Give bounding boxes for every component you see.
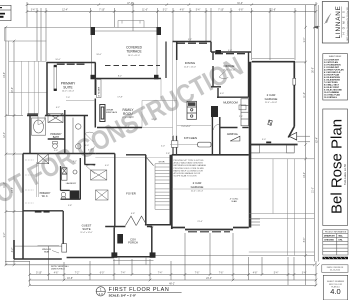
svg-text:7'-6": 7'-6" <box>219 273 224 275</box>
svg-text:4'-0": 4'-0" <box>105 165 109 167</box>
tub <box>32 118 46 135</box>
kitchen <box>170 125 211 144</box>
svg-text:5'-0": 5'-0" <box>161 146 165 148</box>
office door arc <box>219 71 228 79</box>
stair treads upper <box>155 164 170 210</box>
svg-text:26'-8": 26'-8" <box>313 67 315 73</box>
revision box <box>322 265 348 273</box>
guest suite <box>14 240 114 259</box>
svg-text:21'-0": 21'-0" <box>313 187 315 193</box>
powder dark closet <box>70 190 80 199</box>
svg-text:SLAB: SLAB <box>231 200 237 203</box>
dimension texts top <box>31 3 276 12</box>
svg-text:SHEET NUMBER: SHEET NUMBER <box>327 281 345 283</box>
svg-text:4.0: 4.0 <box>99 292 104 296</box>
door arc into wic <box>38 116 45 125</box>
svg-text:31'-0": 31'-0" <box>237 3 243 5</box>
window seat window <box>62 244 67 252</box>
svg-text:5'-2": 5'-2" <box>163 10 168 12</box>
svg-text:SHEET INDEX: SHEET INDEX <box>329 56 342 58</box>
svg-text:11'-4": 11'-4" <box>304 92 306 98</box>
primary suite south wall <box>23 116 88 259</box>
svg-text:11'-6" x 13'-0": 11'-6" x 13'-0" <box>184 66 196 68</box>
garage window east wall <box>293 78 296 85</box>
svg-text:ARRIVAL: ARRIVAL <box>227 132 239 136</box>
terrace beam dashed <box>105 65 160 67</box>
terrace deck edges <box>91 28 161 75</box>
svg-text:GARAGE: GARAGE <box>191 185 204 189</box>
front walk lines bottom <box>5 256 314 265</box>
mud closet boxes <box>239 105 246 110</box>
right dim texts rotated <box>304 38 319 243</box>
terrace posts <box>91 27 162 79</box>
svg-text:47'-0": 47'-0" <box>127 3 133 5</box>
svg-text:8'-6": 8'-6" <box>304 238 306 243</box>
svg-text:05-15-2024: 05-15-2024 <box>330 270 341 272</box>
hall door arcs <box>86 147 95 175</box>
svg-text:AT ALL WALLS AND CEILINGS: AT ALL WALLS AND CEILINGS <box>174 162 204 165</box>
svg-text:11'-6": 11'-6" <box>142 10 148 12</box>
svg-text:4'-2": 4'-2" <box>56 107 60 109</box>
svg-text:BATH: BATH <box>53 136 60 139</box>
svg-text:6'-0": 6'-0" <box>220 93 224 95</box>
wc toilet <box>53 142 58 149</box>
mudroom walls <box>212 88 248 155</box>
svg-text:GARAGE: GARAGE <box>265 97 278 101</box>
svg-text:LINNANE: LINNANE <box>335 5 342 38</box>
svg-text:62'-4": 62'-4" <box>317 137 319 143</box>
svg-text:5'-8": 5'-8" <box>68 205 72 207</box>
svg-text:21'-8": 21'-8" <box>270 10 276 12</box>
svg-text:3'-4": 3'-4" <box>302 273 307 275</box>
svg-text:4'-8": 4'-8" <box>180 10 185 12</box>
svg-text:48'-2": 48'-2" <box>169 283 175 285</box>
svg-text:4.0: 4.0 <box>330 287 340 296</box>
svg-text:16'-4": 16'-4" <box>12 87 14 93</box>
svg-text:4'-8": 4'-8" <box>253 273 258 275</box>
dimension lines right <box>295 5 318 285</box>
svg-text:18'-0": 18'-0" <box>96 54 102 56</box>
svg-text:14'-4": 14'-4" <box>4 72 6 78</box>
svg-text:9'-0"x4'-0": 9'-0"x4'-0" <box>181 126 191 128</box>
title: FIRST FLOOR PLAN <box>96 287 182 298</box>
office walls <box>211 52 249 97</box>
svg-text:DIMS IN FIELD: DIMS IN FIELD <box>51 268 65 270</box>
svg-text:FIREPLACE: FIREPLACE <box>106 111 118 114</box>
west window symbol <box>54 66 57 90</box>
svg-text:BETWEEN HOUSE AND GARAGE: BETWEEN HOUSE AND GARAGE <box>174 164 207 167</box>
svg-text:SCALE: 1/4" = 1'-0": SCALE: 1/4" = 1'-0" <box>109 293 137 297</box>
svg-text:24'-0": 24'-0" <box>206 278 212 280</box>
svg-text:14'-2": 14'-2" <box>304 172 306 178</box>
closets flanking hall <box>91 170 109 200</box>
svg-text:16'-0" x 11'-0": 16'-0" x 11'-0" <box>128 55 140 57</box>
slope arrow at SE corner <box>289 132 297 140</box>
svg-text:12'-4": 12'-4" <box>62 10 68 12</box>
svg-text:7'-10": 7'-10" <box>99 10 105 12</box>
svg-text:DATE / REVISION: DATE / REVISION <box>327 266 344 269</box>
svg-text:PORCH: PORCH <box>128 241 138 245</box>
hall walls <box>85 154 147 228</box>
garage vent hatches bottom <box>188 231 230 233</box>
svg-text:7'-10": 7'-10" <box>218 10 224 12</box>
svg-text:17'-4" x 16'-8": 17'-4" x 16'-8" <box>122 117 135 119</box>
svg-text:11'-4" x 12'-0": 11'-4" x 12'-0" <box>80 232 92 234</box>
svg-text:5'-0": 5'-0" <box>228 50 232 52</box>
svg-text:CHECKED: CHECKED <box>324 239 334 241</box>
dining walls <box>173 42 252 61</box>
vanity two sinks <box>73 118 81 153</box>
stair door + diagonal <box>146 157 154 166</box>
left dim texts rotated <box>4 72 14 252</box>
svg-text:OFFICE: OFFICE <box>224 64 235 68</box>
sheet number box <box>323 275 347 300</box>
svg-text:10'-8" x 11'-0": 10'-8" x 11'-0" <box>223 69 235 71</box>
svg-text:5'-0": 5'-0" <box>54 150 58 152</box>
svg-text:20'-4": 20'-4" <box>124 126 130 128</box>
garage upper walls <box>250 62 298 145</box>
garage rear steps <box>251 219 260 225</box>
svg-text:Twin Lakes Lot 56: Twin Lakes Lot 56 <box>343 164 347 185</box>
bath block east wall <box>79 158 81 200</box>
svg-text:3'-0": 3'-0" <box>262 139 266 141</box>
svg-text:3'-2": 3'-2" <box>73 161 77 163</box>
svg-text:16' SLIDER: 16' SLIDER <box>99 86 101 97</box>
svg-text:12.0 DETAILS: 12.0 DETAILS <box>324 96 338 99</box>
svg-text:14'-0" x 16'-4": 14'-0" x 16'-4" <box>62 91 75 93</box>
hall shower/counter X box <box>38 154 49 164</box>
svg-text:14'-6": 14'-6" <box>12 187 14 193</box>
svg-text:9'-0": 9'-0" <box>304 38 306 43</box>
porch steps <box>113 257 154 265</box>
garage notes text block <box>174 160 207 178</box>
entry double door triangles <box>125 216 146 225</box>
suite west strip lines <box>9 61 47 115</box>
office closet dark <box>216 50 222 54</box>
feather mark <box>325 14 331 23</box>
dimension lines bottom <box>5 233 316 285</box>
svg-text:5'-2": 5'-2" <box>188 39 192 41</box>
suite hall door arc <box>85 132 94 142</box>
svg-text:21'-4" x 20'-8": 21'-4" x 20'-8" <box>265 102 278 104</box>
primary suite walls <box>46 63 95 128</box>
svg-text:21'-4" x 23'-4": 21'-4" x 23'-4" <box>191 190 204 192</box>
stair hall walls <box>145 155 171 225</box>
garage side door frames <box>250 145 294 153</box>
hatched dark bar <box>323 257 349 259</box>
logo box <box>322 2 348 44</box>
svg-text:7'-6": 7'-6" <box>195 273 200 275</box>
dimension lines top <box>27 2 316 61</box>
svg-text:RATED SELF CLOSING DOOR: RATED SELF CLOSING DOOR <box>174 169 204 172</box>
svg-text:17'-8": 17'-8" <box>117 97 123 99</box>
svg-text:4'-4": 4'-4" <box>150 227 154 229</box>
room size sublabels <box>62 55 278 234</box>
svg-text:1407 Jackson Meadows Ph 115 S: 1407 Jackson Meadows Ph 115 Ste 300 <box>346 7 349 41</box>
slider opening box <box>97 80 102 98</box>
legend box top-left <box>0 5 11 20</box>
svg-text:DINING: DINING <box>185 61 196 65</box>
wic south window hatches <box>35 211 50 213</box>
svg-text:SLOPE SLAB TO DOOR: SLOPE SLAB TO DOOR <box>174 175 198 178</box>
svg-text:LAUNDRY: LAUNDRY <box>66 182 77 185</box>
dining west boundary thin <box>173 42 177 136</box>
dim arrow right of top wall <box>313 26 318 29</box>
svg-text:W.I.C.: W.I.C. <box>42 195 49 198</box>
svg-text:21'-4": 21'-4" <box>197 221 203 223</box>
entry: foyer south wall + double door <box>105 226 152 228</box>
svg-text:5'-4": 5'-4" <box>196 10 201 12</box>
svg-text:4'-6": 4'-6" <box>54 273 59 275</box>
note text bottom <box>51 265 70 270</box>
sheet index box <box>323 54 348 100</box>
svg-text:20'-2": 20'-2" <box>151 119 157 121</box>
svg-text:FOYER: FOYER <box>126 192 136 196</box>
island <box>198 142 211 147</box>
svg-text:2'-8": 2'-8" <box>166 153 170 155</box>
svg-text:STOR: STOR <box>158 162 164 164</box>
svg-text:16'-0": 16'-0" <box>55 59 61 61</box>
driveway / walk right <box>249 159 315 256</box>
wall terrace-dining <box>165 42 167 79</box>
svg-text:6'-0": 6'-0" <box>100 273 105 275</box>
svg-text:11'-2": 11'-2" <box>4 182 6 188</box>
svg-text:SUITE: SUITE <box>82 227 90 231</box>
svg-text:MUDROOM: MUDROOM <box>223 100 238 104</box>
svg-text:H O M E S: H O M E S <box>342 10 346 35</box>
family room south wall <box>97 127 142 129</box>
family room north wall (slider) <box>95 78 161 80</box>
bath walls <box>23 110 95 251</box>
chimney outline above terrace <box>118 21 144 28</box>
dimension lines left <box>6 27 62 265</box>
bath east wall <box>84 116 86 156</box>
svg-text:3'-6": 3'-6" <box>88 150 92 152</box>
svg-text:PROJECT INFORMATION: PROJECT INFORMATION <box>325 231 347 234</box>
svg-text:16'-8": 16'-8" <box>67 278 73 280</box>
dining window hatches <box>177 42 207 44</box>
svg-text:5'-4": 5'-4" <box>274 273 279 275</box>
arrival cubbies <box>241 99 249 126</box>
svg-text:4'-2": 4'-2" <box>12 248 14 253</box>
bel rose plan box <box>323 109 348 226</box>
shower <box>48 114 63 123</box>
laundry <box>62 168 77 181</box>
svg-text:7'-4": 7'-4" <box>158 273 163 275</box>
svg-text:KITCHEN: KITCHEN <box>184 136 197 140</box>
svg-text:7'-2": 7'-2" <box>75 273 80 275</box>
garage lower <box>172 62 250 230</box>
svg-text:12'-0": 12'-0" <box>4 132 6 138</box>
svg-text:DRAWN BY: DRAWN BY <box>324 234 336 237</box>
powder toilet <box>61 192 65 199</box>
svg-text:2'-6": 2'-6" <box>239 116 243 118</box>
svg-text:7'-0": 7'-0" <box>66 97 70 99</box>
svg-text:TERRACE: TERRACE <box>126 49 141 53</box>
misc small dims inside plan <box>54 39 266 229</box>
pantry shelves dark <box>211 106 218 117</box>
project table <box>323 230 348 255</box>
svg-text:ROOM: ROOM <box>123 112 133 116</box>
svg-text:SUITE: SUITE <box>63 85 72 89</box>
svg-text:5'-10": 5'-10" <box>36 273 42 275</box>
porch walls <box>112 227 156 257</box>
svg-text:6'-8": 6'-8" <box>239 10 244 12</box>
svg-text:7'-4": 7'-4" <box>121 273 126 275</box>
family room interior lines <box>66 79 177 128</box>
svg-text:AT HOUSE GARAGE DOOR: AT HOUSE GARAGE DOOR <box>174 172 201 175</box>
pantry door arc <box>213 124 219 130</box>
svg-text:1: 1 <box>100 287 102 291</box>
svg-text:8'-0": 8'-0" <box>85 145 89 147</box>
fridge / oven bank <box>187 101 197 119</box>
svg-text:9'-2": 9'-2" <box>4 233 6 238</box>
watermark NOT FOR CONSTRUCTION <box>0 51 248 218</box>
dimension texts bottom <box>36 273 306 286</box>
svg-text:SEAT: SEAT <box>44 250 50 253</box>
stair treads lower <box>155 189 170 209</box>
svg-text:6'-8": 6'-8" <box>131 213 135 215</box>
svg-text:3'-4": 3'-4" <box>31 10 36 12</box>
roof outline upper-left <box>5 27 91 115</box>
primary suite window hatches <box>57 63 85 65</box>
attic hatch mark <box>268 120 272 125</box>
svg-text:8'-2": 8'-2" <box>118 76 122 78</box>
fireplace <box>100 105 105 122</box>
porte lines under garage <box>250 153 314 159</box>
